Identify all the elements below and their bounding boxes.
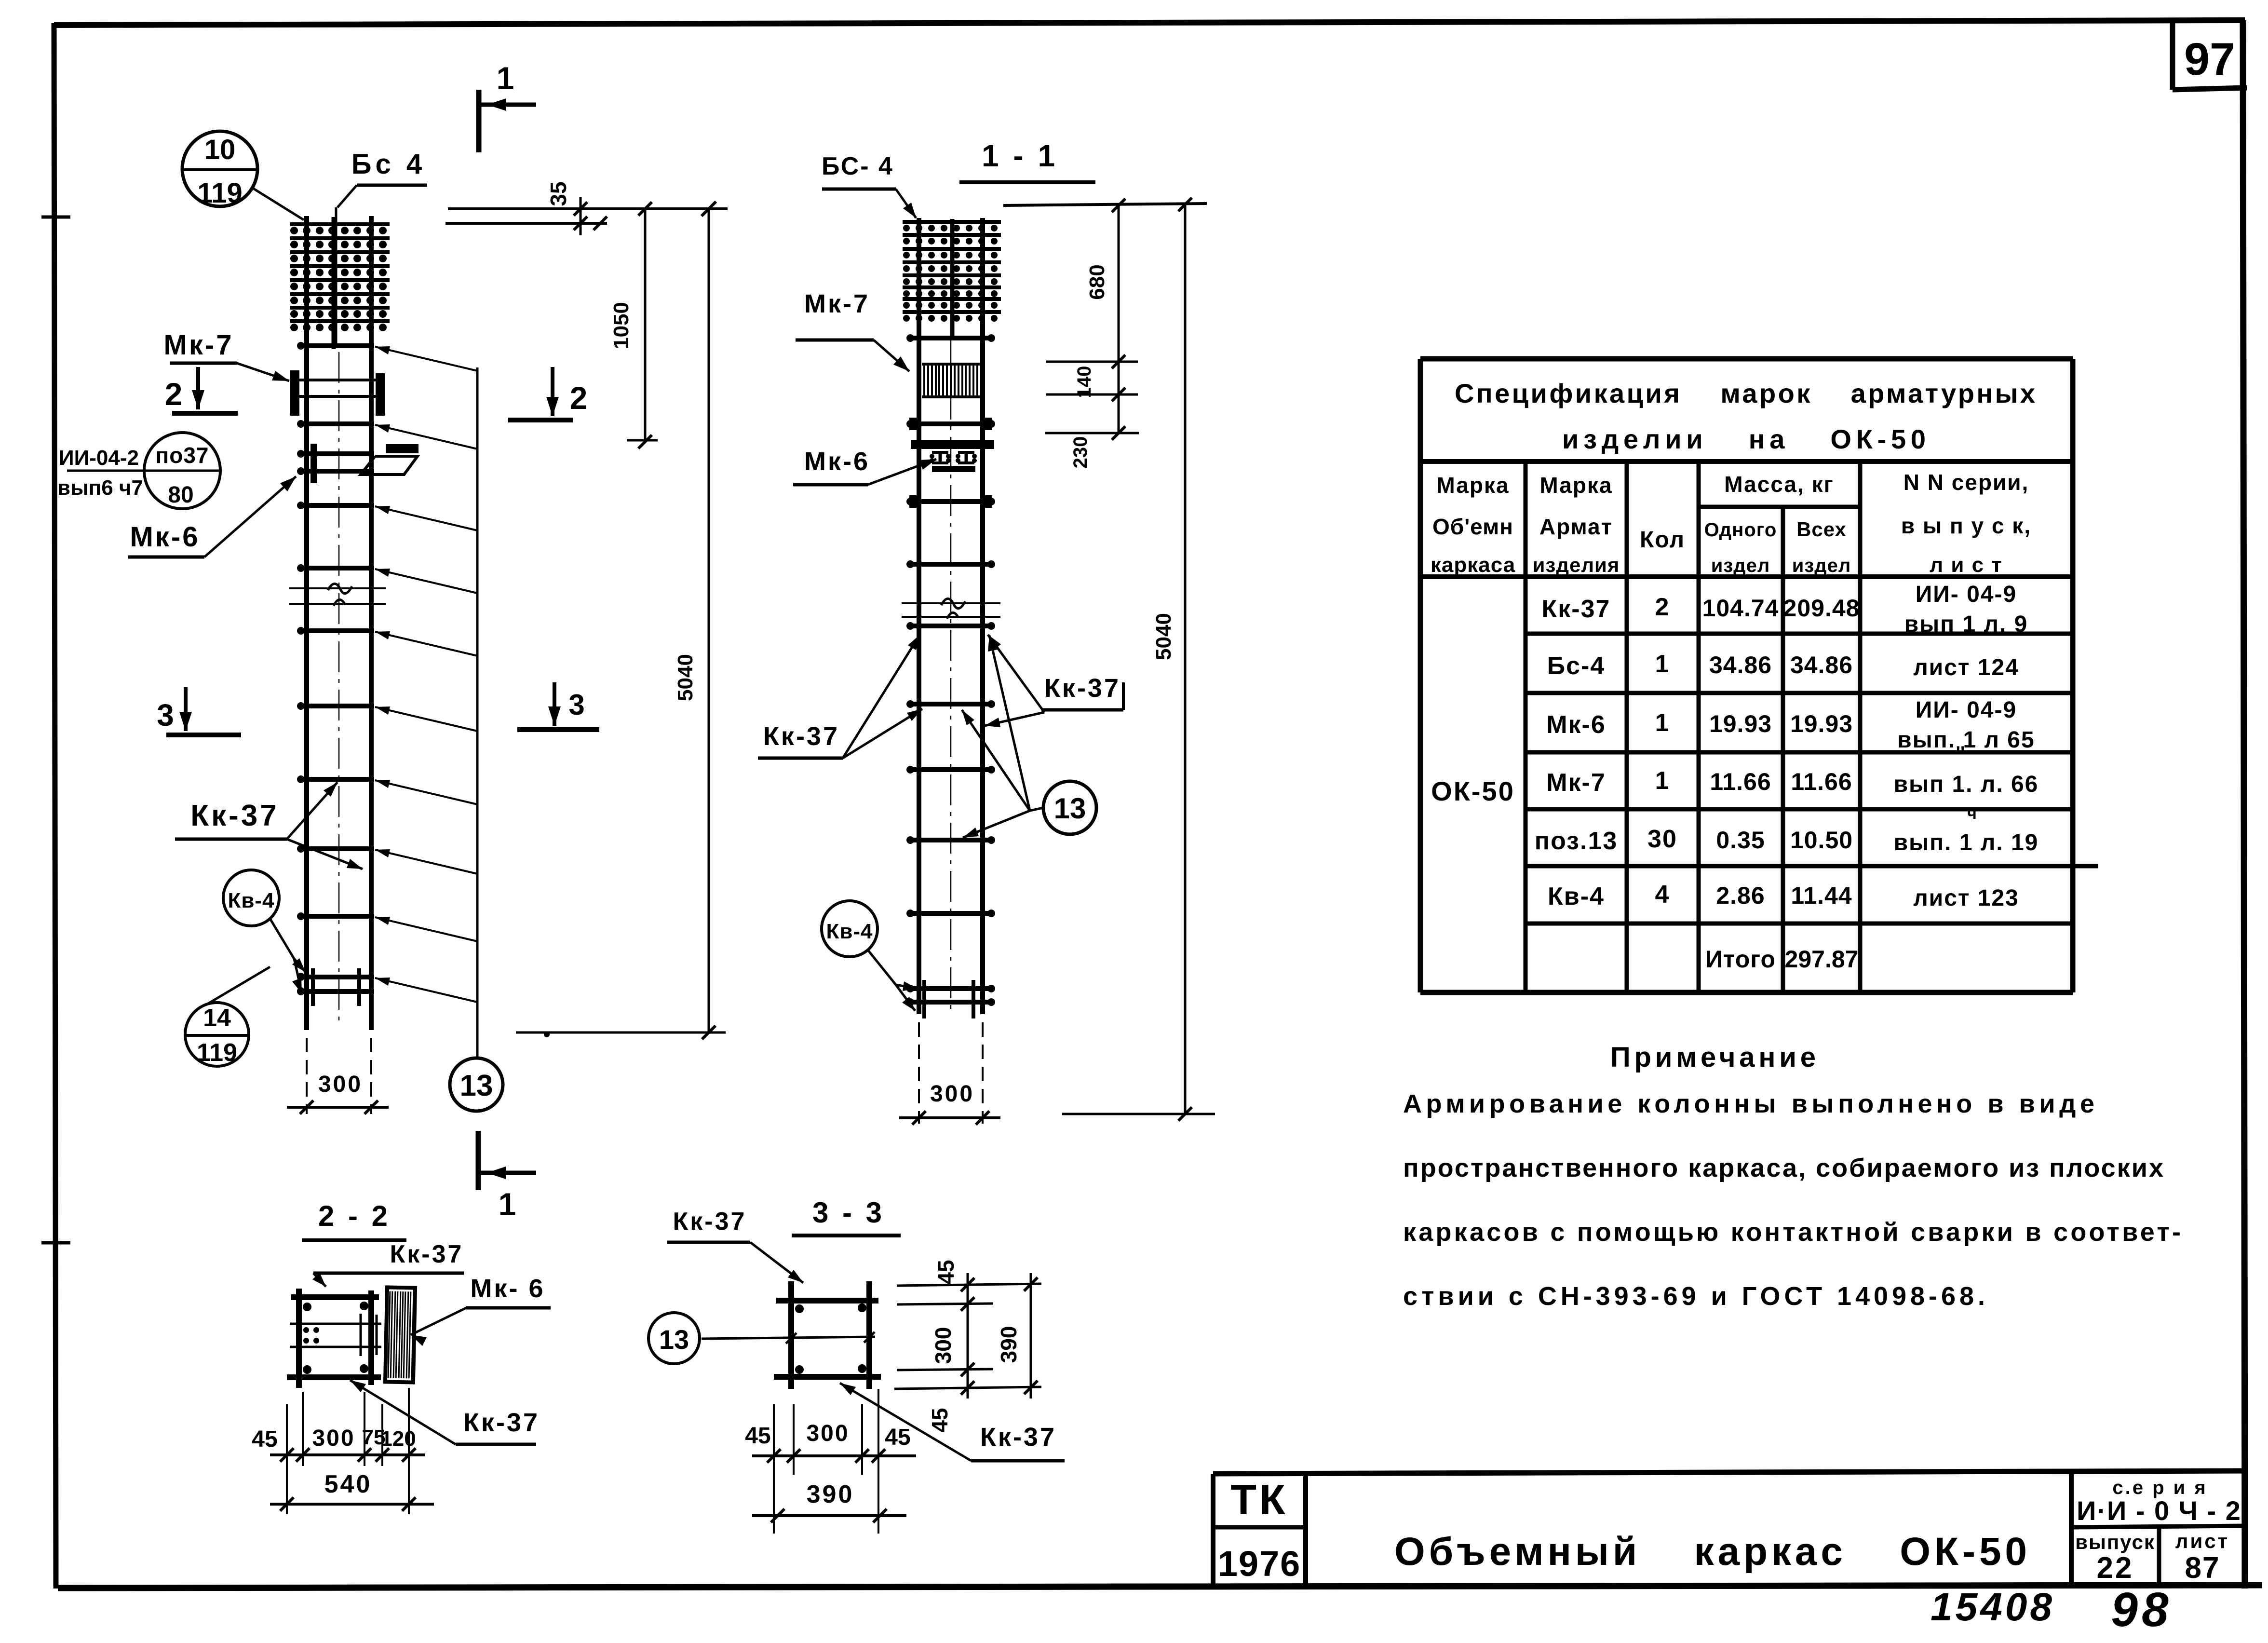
svg-text:И·И - 0 Ч - 2: И·И - 0 Ч - 2 [2077, 1495, 2241, 1526]
svg-text:209.48: 209.48 [1783, 595, 1860, 622]
svg-text:10.50: 10.50 [1790, 827, 1853, 854]
svg-text:22: 22 [2097, 1551, 2134, 1585]
svg-text:3 - 3: 3 - 3 [812, 1196, 885, 1229]
svg-text:1: 1 [1655, 709, 1670, 737]
svg-text:вып 1 л. 9: вып 1 л. 9 [1904, 611, 2028, 637]
svg-text:Кв-4: Кв-4 [228, 889, 274, 912]
svg-text:45: 45 [745, 1423, 770, 1449]
svg-text:104.74: 104.74 [1702, 595, 1779, 622]
svg-text:Итого: Итого [1705, 946, 1776, 973]
svg-text:поз.13: поз.13 [1535, 827, 1618, 855]
svg-text:45: 45 [252, 1426, 277, 1452]
svg-text:35: 35 [546, 181, 571, 206]
svg-text:Мк- 6: Мк- 6 [470, 1274, 545, 1303]
svg-text:120: 120 [380, 1427, 416, 1451]
svg-text:19.93: 19.93 [1709, 710, 1772, 737]
svg-text:Кк-37: Кк-37 [763, 722, 839, 751]
svg-text:Кв-4: Кв-4 [826, 920, 873, 943]
svg-text:Масса, кг: Масса, кг [1724, 472, 1834, 497]
svg-text:45: 45 [933, 1260, 958, 1284]
svg-text:изделия: изделия [1533, 554, 1620, 576]
svg-text:1: 1 [499, 1186, 516, 1222]
svg-text:Примечание: Примечание [1610, 1042, 1822, 1073]
svg-text:297.87: 297.87 [1785, 946, 1859, 973]
svg-text:300: 300 [930, 1081, 974, 1107]
svg-text:2: 2 [570, 380, 588, 416]
svg-text:Кк-37: Кк-37 [673, 1208, 747, 1236]
svg-text:119: 119 [197, 177, 243, 209]
svg-text:Бс-4: Бс-4 [1547, 652, 1606, 680]
svg-text:Кк-37: Кк-37 [1542, 595, 1611, 623]
svg-text:300: 300 [931, 1327, 956, 1364]
svg-text:ч: ч [1967, 804, 1977, 823]
svg-text:140: 140 [1074, 366, 1095, 398]
svg-text:л и с т: л и с т [1930, 553, 2003, 577]
svg-text:вып. 1 л. 19: вып. 1 л. 19 [1894, 830, 2039, 855]
svg-text:Мк-6: Мк-6 [1546, 711, 1606, 739]
svg-text:11.44: 11.44 [1791, 882, 1852, 909]
svg-text:лист: лист [2175, 1530, 2229, 1552]
svg-text:Кв-4: Кв-4 [1548, 883, 1605, 910]
svg-text:вып 1. л. 66: вып 1. л. 66 [1894, 772, 2039, 797]
svg-text:1 - 1: 1 - 1 [982, 138, 1058, 173]
svg-text:13: 13 [460, 1069, 493, 1102]
svg-text:1: 1 [1655, 650, 1670, 678]
svg-text:5040: 5040 [674, 654, 697, 701]
svg-text:30: 30 [1647, 825, 1677, 853]
svg-text:3: 3 [157, 698, 174, 733]
svg-text:каркаса: каркаса [1431, 553, 1515, 577]
svg-text:лист 124: лист 124 [1913, 655, 2019, 680]
svg-text:4: 4 [1655, 881, 1670, 909]
svg-text:98: 98 [2111, 1583, 2172, 1637]
svg-text:13: 13 [659, 1324, 689, 1355]
svg-text:1: 1 [497, 60, 514, 96]
svg-text:Армат: Армат [1539, 514, 1613, 539]
svg-text:'': '' [1956, 743, 1965, 764]
svg-text:300: 300 [318, 1072, 363, 1097]
svg-text:изделии на ОК-50: изделии на ОК-50 [1562, 424, 1929, 454]
svg-text:лист 123: лист 123 [1913, 885, 2019, 911]
svg-text:119: 119 [197, 1039, 237, 1067]
svg-text:Мк-6: Мк-6 [804, 447, 870, 476]
svg-text:Всех: Всех [1796, 518, 1847, 541]
svg-text:Кк-37: Кк-37 [390, 1240, 464, 1268]
svg-text:Бс 4: Бс 4 [351, 149, 426, 180]
svg-text:2: 2 [165, 376, 183, 412]
svg-text:Мк-7: Мк-7 [164, 329, 234, 361]
svg-text:14: 14 [203, 1004, 231, 1032]
svg-text:ОК-50: ОК-50 [1431, 776, 1515, 806]
svg-text:Кк-37: Кк-37 [463, 1408, 540, 1437]
svg-text:11.66: 11.66 [1710, 768, 1771, 795]
svg-text:19.93: 19.93 [1790, 710, 1853, 737]
svg-text:2.86: 2.86 [1716, 882, 1765, 909]
svg-text:Марка: Марка [1436, 473, 1509, 498]
svg-text:97: 97 [2184, 34, 2235, 85]
svg-text:390: 390 [996, 1326, 1021, 1363]
svg-text:ИИ- 04-9: ИИ- 04-9 [1916, 697, 2017, 723]
svg-text:N N серии,: N N серии, [1903, 470, 2029, 495]
svg-text:издел: издел [1711, 555, 1770, 576]
svg-text:Кк-37: Кк-37 [1044, 674, 1120, 703]
svg-text:300: 300 [806, 1421, 849, 1446]
svg-text:Спецификация марок арматурны: Спецификация марок арматурных [1455, 378, 2038, 408]
svg-text:ствии с СН-393-69 и ГОСТ 14: ствии с СН-393-69 и ГОСТ 14098-68. [1403, 1282, 1985, 1311]
svg-text:Мк-7: Мк-7 [804, 289, 870, 318]
svg-text:ИИ- 04-9: ИИ- 04-9 [1916, 582, 2017, 607]
svg-text:Кк-37: Кк-37 [980, 1423, 1056, 1452]
svg-text:3: 3 [568, 689, 584, 721]
svg-text:5040: 5040 [1152, 613, 1175, 660]
svg-text:БС- 4: БС- 4 [822, 152, 894, 180]
svg-text:34.86: 34.86 [1790, 652, 1853, 679]
svg-text:45: 45 [885, 1425, 910, 1450]
svg-text:вып6 ч7: вып6 ч7 [57, 476, 143, 500]
svg-text:выпуск: выпуск [2075, 1531, 2155, 1553]
svg-text:87: 87 [2185, 1551, 2220, 1585]
svg-text:11.66: 11.66 [1791, 768, 1852, 795]
svg-text:в ы п у с к,: в ы п у с к, [1901, 513, 2031, 538]
svg-text:13: 13 [1054, 792, 1086, 825]
svg-text:1: 1 [1655, 767, 1670, 795]
svg-text:15408: 15408 [1930, 1585, 2055, 1629]
svg-text:2 - 2: 2 - 2 [318, 1200, 391, 1232]
svg-text:Об'емн: Об'емн [1432, 514, 1513, 539]
svg-text:680: 680 [1085, 264, 1109, 299]
svg-text:390: 390 [807, 1480, 854, 1508]
svg-text:2: 2 [1655, 593, 1670, 621]
svg-text:Кк-37: Кк-37 [190, 799, 279, 832]
svg-text:540: 540 [324, 1470, 372, 1498]
svg-text:1976: 1976 [1218, 1544, 1301, 1584]
svg-text:издел: издел [1792, 555, 1851, 576]
svg-text:Кол: Кол [1640, 527, 1685, 553]
svg-text:Марка: Марка [1539, 473, 1612, 498]
svg-text:1050: 1050 [609, 302, 633, 349]
svg-text:ИИ-04-2: ИИ-04-2 [59, 446, 139, 470]
svg-text:по37: по37 [155, 443, 209, 468]
svg-text:34.86: 34.86 [1709, 652, 1772, 679]
svg-text:Мк-7: Мк-7 [1546, 769, 1606, 797]
svg-text:80: 80 [168, 482, 193, 508]
svg-text:45: 45 [927, 1408, 952, 1432]
svg-text:Мк-6: Мк-6 [130, 521, 200, 553]
svg-text:300: 300 [312, 1426, 355, 1451]
svg-text:230: 230 [1070, 436, 1091, 469]
svg-text:вып. 1 л 65: вып. 1 л 65 [1897, 727, 2035, 753]
svg-text:ТК: ТК [1230, 1476, 1288, 1523]
svg-text:Объемный каркас ОК-50: Объемный каркас ОК-50 [1394, 1530, 2031, 1574]
svg-text:0.35: 0.35 [1716, 827, 1765, 854]
svg-text:10: 10 [204, 134, 236, 165]
svg-text:Одного: Одного [1704, 519, 1777, 541]
